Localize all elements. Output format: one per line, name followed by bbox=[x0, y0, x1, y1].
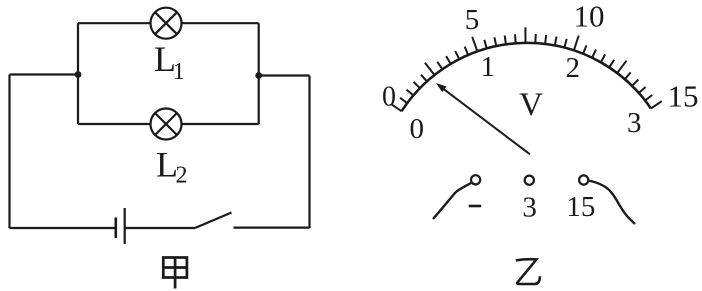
label - (minus) bbox=[469, 205, 482, 208]
svg-text:0: 0 bbox=[382, 82, 396, 113]
label 甲 (jia) bbox=[163, 258, 187, 289]
scale label 0 (outer, 0-15 scale) bbox=[382, 0, 699, 145]
svg-text:10: 10 bbox=[574, 0, 605, 34]
wire: bottom left segment to battery bbox=[10, 227, 116, 229]
terminal negative (-) bbox=[471, 175, 480, 184]
svg-text:15: 15 bbox=[668, 79, 699, 114]
label 15 (terminal) bbox=[566, 191, 595, 223]
svg-text:0: 0 bbox=[409, 113, 424, 145]
voltmeter scale arc bbox=[402, 43, 651, 111]
wire: bottom branch right segment bbox=[182, 123, 259, 125]
wire: top branch left segment bbox=[78, 22, 151, 24]
svg-text:2: 2 bbox=[176, 163, 188, 189]
label 乙 (yi) bbox=[516, 259, 540, 284]
battery (cell) bbox=[116, 208, 125, 244]
wire: right outer vertical bbox=[308, 76, 310, 229]
wire: battery to switch pivot bbox=[125, 227, 195, 229]
svg-text:5: 5 bbox=[465, 4, 480, 36]
lamp L2 bbox=[151, 109, 182, 140]
label L2 bbox=[156, 144, 188, 188]
label L1 bbox=[154, 39, 185, 85]
label 3 (terminal) bbox=[522, 192, 537, 224]
wire: left branch vertical bbox=[77, 23, 79, 124]
wire: right branch vertical bbox=[258, 23, 260, 124]
wire: top branch right segment bbox=[182, 22, 259, 24]
wire: left outer vertical bbox=[8, 75, 10, 229]
terminal 3 bbox=[525, 176, 534, 185]
voltmeter tick marks bbox=[391, 27, 662, 111]
svg-text:3: 3 bbox=[627, 107, 642, 139]
switch S (open) bbox=[195, 213, 232, 229]
wire: flexible lead from 15 terminal bbox=[588, 181, 635, 225]
wire: bottom branch left segment bbox=[78, 123, 151, 125]
svg-text:1: 1 bbox=[481, 51, 496, 83]
wire: flexible lead from negative terminal bbox=[433, 183, 471, 219]
lamp L1 bbox=[151, 8, 182, 39]
node B (right junction dot) bbox=[255, 72, 262, 79]
svg-text:V: V bbox=[519, 87, 543, 123]
svg-text:1: 1 bbox=[173, 59, 185, 85]
node A (left junction dot) bbox=[75, 71, 82, 78]
svg-text:2: 2 bbox=[565, 52, 580, 84]
svg-text:3: 3 bbox=[522, 192, 537, 224]
svg-text:15: 15 bbox=[566, 191, 595, 223]
wire: mid-left horizontal to node A bbox=[10, 73, 79, 75]
terminal 15 bbox=[579, 175, 588, 184]
wire: mid-right horizontal from node B bbox=[259, 74, 310, 76]
wire: switch contact to bottom right corner bbox=[234, 227, 310, 229]
needle (pointer) bbox=[436, 83, 530, 154]
